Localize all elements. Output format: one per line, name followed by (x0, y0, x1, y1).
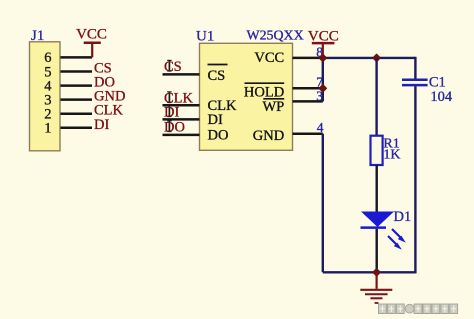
pin 3 wire of J1 (61, 98, 93, 101)
svg-text:WP: WP (262, 99, 284, 115)
net label CS at J1 pin 5 (94, 61, 112, 77)
power symbol VCC at U1 pin 8 (308, 29, 339, 57)
part type W25QXX (247, 29, 304, 44)
LED light arrow 1 (392, 229, 406, 243)
U1 pin name WP (active low) (262, 99, 284, 115)
pin 5 wire of J1 (61, 70, 93, 73)
pin 1 wire of J1 (61, 127, 93, 130)
junction at VCC stem / pin 8 (318, 53, 327, 62)
svg-text:1: 1 (44, 121, 51, 137)
pin number 3 of J1 (44, 92, 51, 108)
svg-text:4: 4 (317, 120, 324, 135)
capacitor C1 (402, 80, 428, 85)
value 1K (383, 148, 400, 163)
svg-text:DI: DI (164, 105, 179, 121)
svg-text:DO: DO (164, 120, 185, 136)
wire VCC rail down to R1 (375, 58, 377, 136)
pin number 1 of J1 (44, 121, 51, 137)
net label CS at U1 (164, 59, 182, 75)
LED D1 (361, 212, 395, 228)
wire D1 cathode to ground rail (376, 229, 378, 272)
svg-text:DI: DI (94, 117, 109, 133)
watermark (379, 304, 458, 314)
designator R1 (383, 136, 399, 151)
U1 pin name DI (208, 112, 223, 128)
pin number 3 (316, 88, 323, 103)
power symbol VCC at J1 pin 6 (76, 27, 107, 58)
designator J1 (31, 28, 44, 44)
pin number 4 of J1 (44, 78, 52, 94)
U1 pin name GND (253, 128, 284, 144)
U1 pin name DO (208, 128, 229, 144)
net label DI at U1 (164, 105, 179, 121)
pin 6 wire of J1 (61, 56, 93, 59)
U1 pin 4 wire (GND) (293, 133, 323, 136)
wire C1 bottom plate to ground rail (414, 86, 416, 273)
svg-text:1K: 1K (383, 148, 400, 163)
svg-text:DO: DO (208, 128, 229, 144)
junction at R1 branch on VCC rail (372, 53, 381, 62)
pin number 7 (316, 75, 323, 90)
U1 CLK pin end tick (167, 92, 171, 104)
svg-text:CS: CS (164, 59, 182, 75)
net label GND at J1 pin 3 (94, 89, 125, 105)
net label CLK at U1 (164, 91, 194, 107)
connector J1 body (30, 42, 61, 151)
U1 pin name CS (active low) (208, 65, 228, 84)
designator U1 (196, 29, 214, 45)
U1 CLK pin wire (left) (163, 104, 200, 107)
designator C1 (429, 75, 446, 91)
pin number 8 (316, 45, 323, 60)
wire U1 pin 4 down to ground rail (322, 134, 324, 272)
U1 pin 8 wire (VCC) (293, 57, 323, 60)
U1 pin name VCC (254, 50, 284, 66)
U1 pin name HOLD (active low) (244, 83, 284, 100)
svg-text:HOLD: HOLD (244, 84, 284, 100)
wire R1 to D1 anode (376, 165, 378, 213)
U1 DI pin end tick (167, 106, 171, 118)
svg-text:CS: CS (208, 68, 226, 84)
net label DO at J1 pin 4 (94, 75, 115, 91)
svg-text:GND: GND (253, 128, 284, 144)
wire VCC rail pin8 to C1 (323, 57, 416, 59)
pin number 5 of J1 (44, 64, 51, 80)
junction at pin 7 (318, 84, 327, 93)
LED light arrow 2 (388, 236, 402, 250)
U1 pin name CLK (208, 98, 238, 114)
svg-text:104: 104 (430, 89, 453, 105)
wire pin8 down to pins 7 and 3 (322, 58, 324, 102)
resistor R1 (371, 136, 383, 165)
wire VCC rail down to C1 top plate (414, 57, 416, 79)
svg-text:W25QXX: W25QXX (247, 29, 304, 44)
net label CLK at J1 pin 2 (94, 103, 124, 119)
svg-text:DI: DI (208, 112, 223, 128)
U1 CS pin end tick (167, 60, 171, 72)
junction at ground rail / D1 branch (372, 268, 381, 277)
U1 pin 3 wire (WP) (293, 100, 323, 103)
svg-text:VCC: VCC (76, 27, 107, 43)
svg-text:U1: U1 (196, 29, 214, 45)
net label DI at J1 pin 1 (94, 117, 109, 133)
svg-text:D1: D1 (394, 209, 412, 225)
designator D1 (394, 209, 412, 225)
pin number 6 of J1 (44, 50, 51, 66)
pin number 2 of J1 (44, 107, 51, 123)
U1 pin 7 wire (HOLD) (293, 87, 323, 90)
ground rail wire (323, 271, 416, 273)
ground symbol (360, 272, 392, 303)
svg-text:VCC: VCC (254, 50, 284, 66)
value 104 (430, 89, 453, 105)
svg-text:J1: J1 (31, 28, 44, 44)
pin 2 wire of J1 (61, 112, 93, 115)
U1 DO pin wire (left) (163, 134, 200, 137)
pin 4 wire of J1 (61, 84, 93, 87)
U1 DI pin wire (left) (163, 118, 200, 121)
IC U1 body (200, 43, 293, 150)
U1 CS pin wire (left) (163, 73, 200, 76)
U1 DO pin end tick (167, 121, 171, 133)
net label DO at U1 (164, 120, 185, 136)
pin number 4 (317, 120, 324, 135)
